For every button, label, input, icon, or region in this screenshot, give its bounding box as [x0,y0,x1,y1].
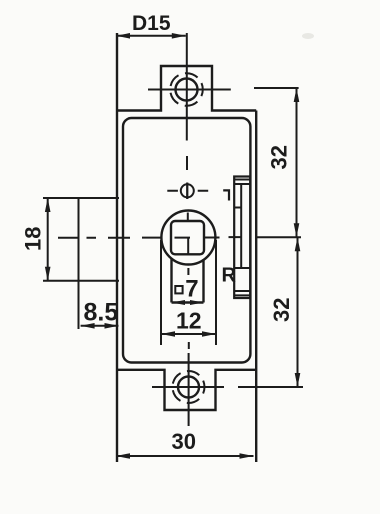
bottom screw crosshair [152,386,224,388]
dim 8.5 line [81,325,119,327]
pin hole [181,184,194,197]
latch horizontal lines [234,180,250,296]
dim 30 line [116,455,254,457]
dim 18 arrows [45,198,51,212]
dim 12 arrows [161,331,175,337]
hook detail [223,190,229,200]
plate top edge with top mounting tab [117,66,256,111]
svg-text:R: R [222,265,237,287]
latch inner vertical [240,184,242,268]
dim 32 upper extension line [254,87,299,89]
svg-text:D15: D15 [132,12,171,35]
horizontal center line [58,236,241,239]
dim 32 upper line [296,88,298,237]
dim 8.5 arrows [81,323,95,329]
dim 12 line [161,333,216,335]
pin hole vertical line [186,183,188,199]
dim 32 lower bottom extension line [238,386,303,388]
dim D15 line [116,35,186,37]
dim 30 arrows [116,453,130,459]
svg-text:12: 12 [176,308,202,334]
svg-text:32: 32 [269,298,294,322]
svg-text:7: 7 [185,276,198,303]
lock depth profile line [78,198,80,329]
inner faceplate rounded rectangle [123,118,250,363]
plate left edge / extension line [116,33,118,462]
vertical center line [187,33,189,426]
latch body outline [234,177,250,299]
top screw dashed circle [170,73,203,106]
dim 18 extension lines [43,198,119,281]
plate bottom edge with bottom mounting tab [117,370,256,410]
square spindle hole [171,221,204,254]
dim 32 lower arrows [295,237,301,251]
plate right edge / extension line [255,111,257,463]
svg-text:18: 18 [21,227,46,251]
bottom screw dashed circle [173,371,205,403]
dim square7 arrows [172,300,186,305]
mid extension line [256,236,301,238]
dim square7 square symbol [175,286,182,293]
faint scan smudge [302,33,314,39]
dim 12 extension lines [161,240,216,345]
dim D15 arrows [116,33,130,39]
dim 32 upper arrows [294,88,300,102]
bottom screw hole [178,377,199,398]
svg-text:8.5: 8.5 [84,298,119,326]
follower circle [161,211,215,265]
dim 18 line [47,198,49,281]
dim 32 lower line [297,237,299,387]
slot below follower [172,259,204,303]
pin hole side dashes [167,190,208,192]
top screw crosshair [148,89,231,91]
top screw hole [176,79,198,101]
svg-text:30: 30 [172,429,196,454]
svg-text:32: 32 [267,145,292,169]
